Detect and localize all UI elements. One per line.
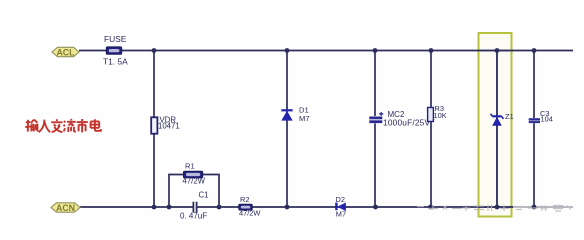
highlight box around Z1	[479, 33, 512, 217]
svg-text:47/2W: 47/2W	[239, 208, 260, 217]
hanzi 入	[39, 120, 51, 133]
svg-text:47/2W: 47/2W	[183, 177, 206, 186]
diode D2	[336, 203, 346, 212]
node top Z1	[495, 48, 500, 53]
hanzi 输	[25, 120, 37, 132]
wire D1 branch	[286, 51, 288, 208]
node bottom Z1	[495, 205, 500, 210]
resistor R1 body	[184, 171, 203, 178]
node bottom loop right	[217, 205, 222, 210]
svg-text:ACL: ACL	[56, 47, 75, 57]
node bottom C3	[532, 205, 537, 210]
wire bottom rail through box	[478, 206, 513, 208]
hanzi 交	[51, 119, 62, 132]
node bottom MC2	[373, 205, 378, 210]
svg-text:R2: R2	[240, 195, 249, 204]
svg-text:C1: C1	[199, 191, 209, 200]
svg-text:0. 47uF: 0. 47uF	[180, 212, 207, 221]
wire MC2 branch upper	[374, 51, 376, 117]
hanzi 市	[77, 119, 88, 132]
resistor R2 body	[239, 204, 252, 210]
svg-text:M7: M7	[336, 209, 346, 218]
varistor VDR body	[151, 117, 157, 133]
svg-text:10471: 10471	[158, 122, 180, 131]
wire bottom rail faded right end	[513, 206, 573, 208]
zener Z1	[491, 114, 504, 126]
diode D1	[281, 110, 292, 120]
resistor R3 body	[428, 108, 434, 122]
node top MC2	[373, 48, 378, 53]
node top C3	[532, 48, 537, 53]
wire R1 bypass loop	[169, 175, 219, 208]
node bottom VDR	[152, 205, 157, 210]
node bottom loop left	[167, 205, 172, 210]
svg-text:T1. 5A: T1. 5A	[103, 57, 128, 67]
node top R3	[429, 48, 434, 53]
node top D1	[285, 48, 290, 53]
capacitor MC2 plates	[369, 112, 383, 122]
fuse F1 body	[106, 47, 121, 54]
wire R3 branch	[430, 51, 432, 208]
svg-text:1000uF/25V: 1000uF/25V	[383, 118, 430, 128]
wire MC2 branch lower	[374, 123, 376, 207]
wire Z1 branch (redrawn over box fill)	[496, 51, 498, 208]
svg-text:R1: R1	[185, 162, 195, 171]
svg-text:M7: M7	[299, 114, 310, 123]
svg-text:Z1: Z1	[505, 112, 514, 121]
node bottom D1	[285, 205, 290, 210]
node dots top rail	[152, 48, 537, 53]
wire bottom rail left	[80, 206, 193, 208]
node bottom R3	[428, 205, 433, 210]
wire VDR branch	[153, 51, 155, 208]
watermark faint text bottom right	[417, 205, 571, 212]
svg-text:104: 104	[541, 115, 553, 124]
svg-text:D2: D2	[336, 195, 345, 204]
wire bottom rail right	[197, 206, 513, 208]
svg-text:ACN: ACN	[56, 203, 75, 213]
node top VDR	[152, 48, 157, 53]
wire top rail	[79, 50, 573, 52]
node dots bottom rail	[152, 205, 537, 210]
wire C3 branch upper	[533, 51, 535, 119]
svg-text:FUSE: FUSE	[104, 34, 127, 44]
wire top rail through box	[477, 50, 514, 52]
capacitor C3 plates	[529, 119, 540, 122]
capacitor C1 plates	[193, 202, 196, 213]
annotation 输入交流市电 (red hanzi drawn as strokes)	[25, 119, 101, 132]
hanzi 流	[64, 119, 76, 132]
svg-text:10K: 10K	[434, 111, 447, 120]
port ACL	[52, 47, 79, 57]
port ACN	[51, 203, 80, 213]
wire Z1 branch	[496, 51, 498, 208]
wire C3 branch lower	[533, 123, 535, 207]
hanzi 电	[91, 119, 101, 131]
